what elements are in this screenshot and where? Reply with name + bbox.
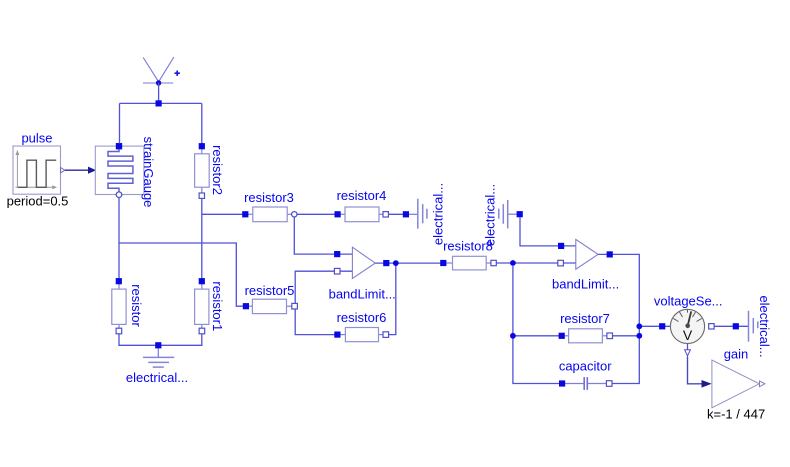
wire resistor6 to opamp1 output node (389, 263, 396, 335)
pin sensor left (659, 323, 665, 329)
resistor R vertical left (112, 278, 126, 334)
wire resistor7 right to node (613, 335, 640, 337)
wire node to voltage sensor (639, 325, 670, 327)
wire resistor5 node to opamp1 in2 (295, 271, 352, 303)
junction node r7 left (510, 333, 516, 339)
op-amp bandLimited2 (576, 239, 598, 269)
signal wire sensor to gain (688, 357, 712, 388)
pin opamp1 in1 (334, 251, 340, 257)
ground electrical2 (499, 200, 517, 228)
svg-text:electrical...: electrical... (430, 183, 445, 245)
op-amp bandLimited1 (352, 247, 375, 278)
resistor R5 (243, 299, 298, 313)
wire top to resistor2 (201, 103, 203, 143)
junction node feedback (510, 260, 516, 266)
svg-text:pulse: pulse (21, 130, 52, 145)
resistor R6 (334, 328, 388, 342)
voltage sensor voltageSensor (670, 309, 704, 343)
pin sensor right (709, 324, 714, 329)
svg-text:gain: gain (724, 346, 749, 361)
resistor R2 vertical (195, 143, 210, 198)
pin square ground2 (517, 211, 523, 217)
svg-text:resistor1: resistor1 (210, 281, 225, 331)
wire top to strainGauge (119, 103, 121, 143)
wire bridge bottom (119, 334, 202, 346)
svg-text:resistor5: resistor5 (245, 283, 295, 298)
supply voltage symbol (143, 57, 180, 86)
pin opamp2 in1 (558, 243, 564, 249)
resistor R1 vertical (195, 278, 209, 334)
ground electrical3 (749, 311, 758, 342)
svg-text:resistor: resistor (129, 284, 144, 327)
wire node to resistor7 left (513, 335, 559, 337)
wire resistor8 to opamp2 in2 (497, 262, 576, 264)
pin opamp2 in2 (558, 260, 564, 266)
svg-text:voltageSe...: voltageSe... (654, 294, 723, 309)
junction node sensor (636, 323, 642, 329)
pin square ground1b (403, 211, 409, 217)
pin opamp1 in2 (334, 268, 340, 274)
svg-text:k=-1 / 447: k=-1 / 447 (707, 406, 765, 421)
svg-text:bandLimit...: bandLimit... (329, 286, 396, 301)
junction node opamp1 out (393, 260, 399, 266)
wire resistor4 to ground pin (389, 213, 407, 215)
svg-text:resistor7: resistor7 (560, 311, 610, 326)
junction node r7 right (636, 333, 642, 339)
wire bridge top (120, 102, 202, 104)
pin opamp1 out (383, 260, 389, 266)
resistor R8 (440, 256, 496, 270)
signal wire pulse to strainGauge (65, 167, 96, 174)
svg-text:electrical...: electrical... (483, 184, 498, 246)
pin opamp2 out (607, 251, 613, 257)
gain block (712, 360, 765, 408)
svg-text:period=0.5: period=0.5 (7, 193, 69, 208)
svg-text:capacitor: capacitor (559, 359, 612, 374)
wire opamp2 output down right side (598, 254, 639, 383)
svg-text:strainGauge: strainGauge (141, 137, 156, 208)
svg-text:resistor4: resistor4 (337, 188, 387, 203)
wire strainGauge bottom to left mid node (118, 198, 120, 282)
junction top node (156, 100, 162, 106)
svg-text:electrical...: electrical... (126, 370, 188, 385)
resistor R3 (242, 207, 297, 222)
wire supply to top node (158, 83, 160, 103)
wire left mid node to resistor5 (119, 243, 243, 306)
wire sensor to ground3 (715, 325, 749, 327)
ground electrical1b (409, 199, 427, 229)
svg-text:V: V (683, 327, 693, 343)
svg-text:electrical...: electrical... (757, 295, 772, 357)
wire resistor2 bottom to resistor1 (201, 199, 203, 282)
svg-text:resistor2: resistor2 (210, 145, 225, 195)
strain gauge strainGauge (95, 143, 144, 198)
svg-text:resistor3: resistor3 (244, 190, 294, 205)
wire ground2 to opamp2 in1 (520, 218, 576, 246)
wire resistor5 node to resistor6 (295, 309, 335, 335)
svg-text:resistor6: resistor6 (337, 310, 387, 325)
wire right mid node to resistor3 (202, 213, 243, 215)
resistor R7 (559, 329, 613, 343)
wire resistor3 node to opamp1 in1 (294, 217, 352, 254)
sensor output connector (685, 344, 691, 356)
ground electrical1 (143, 348, 174, 367)
resistor R4 (335, 207, 389, 222)
capacitor C (559, 377, 612, 390)
wire resistor3 to resistor4 (297, 213, 335, 215)
svg-text:bandLimit...: bandLimit... (552, 276, 619, 291)
wire opamp1 output (375, 262, 443, 264)
wire feedback node down to resistor7 row (513, 265, 560, 384)
junction bottom node (155, 342, 161, 348)
pulse source block (13, 146, 65, 194)
pin square ground3 (733, 323, 739, 329)
